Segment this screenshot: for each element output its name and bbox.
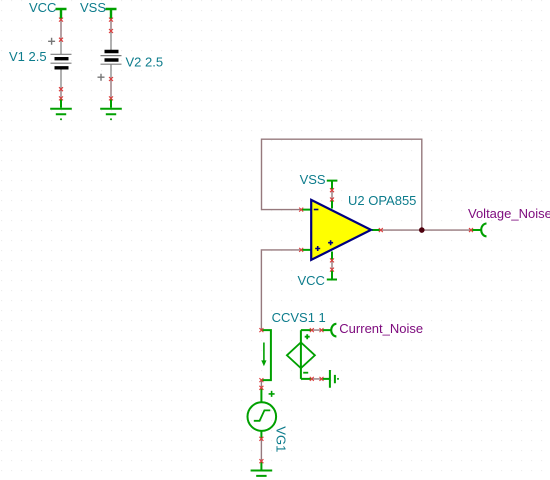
svg-text:V1 2.5: V1 2.5 [9,49,47,64]
svg-text:VSS: VSS [80,0,106,15]
svg-text:VSS: VSS [300,172,326,187]
svg-text:U2 OPA855: U2 OPA855 [348,193,416,208]
svg-text:VCC: VCC [298,273,325,288]
svg-text:VG1: VG1 [273,426,288,452]
svg-text:CCVS1 1: CCVS1 1 [272,310,326,325]
svg-text:V2 2.5: V2 2.5 [126,54,164,69]
svg-text:Voltage_Noise: Voltage_Noise [468,206,550,221]
svg-text:Current_Noise: Current_Noise [339,321,423,336]
svg-text:VCC: VCC [29,0,56,15]
